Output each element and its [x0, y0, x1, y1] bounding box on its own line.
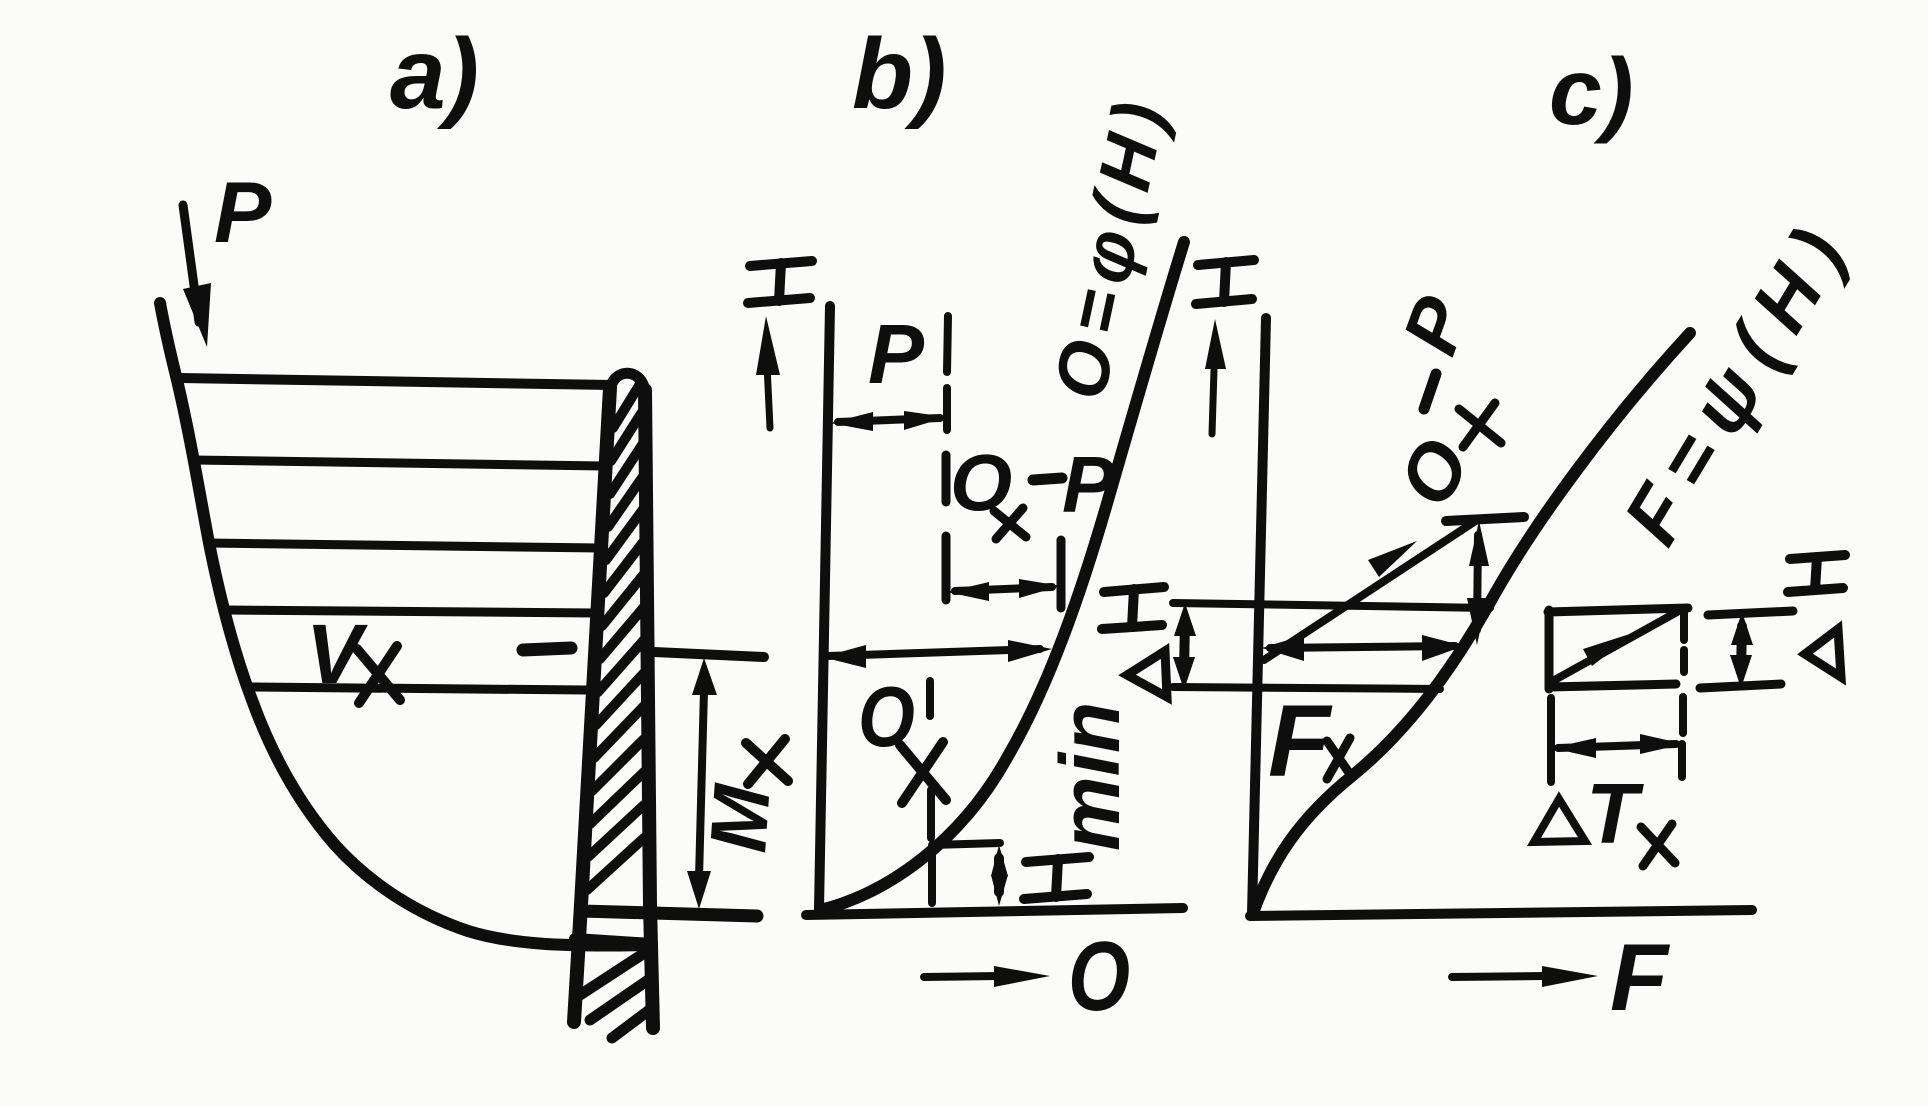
label delta-Tx	[1534, 767, 1675, 866]
label F (part c axis)	[1610, 925, 1671, 1031]
water line 4	[226, 610, 594, 613]
Ox-P label ticks	[946, 455, 1061, 608]
Mx top tick	[654, 652, 764, 657]
delta-H label rotated H glyph (left)	[1102, 587, 1164, 629]
delta-Tx dimension line	[1552, 734, 1684, 758]
vertical double arrow (part c)	[1467, 521, 1489, 645]
Hmin double arrow	[991, 845, 1008, 906]
P dimension line (part b)	[830, 411, 947, 431]
minus sign	[523, 648, 571, 650]
vertical axis (part c)	[1252, 318, 1266, 914]
column right edge	[645, 390, 653, 1028]
svg-text:P: P	[868, 307, 925, 401]
svg-text:P: P	[214, 165, 272, 261]
delta-H ticks (right)	[1700, 611, 1793, 688]
label F=psi(H) rotated	[1606, 200, 1870, 558]
label Fx	[1268, 684, 1352, 798]
delta-Tx left tick	[1547, 698, 1555, 782]
water line 1	[180, 378, 612, 385]
column hatching	[587, 384, 644, 890]
label Ox-P (part b)	[950, 438, 1116, 539]
label P (part a)	[214, 165, 272, 261]
tank bottom curve crossing column	[575, 939, 652, 944]
label Ox (part b)	[858, 669, 946, 803]
H axis label (rotated H glyph, part c)	[1196, 260, 1254, 304]
label P (part b)	[868, 307, 925, 401]
vertical axis (part b)	[819, 306, 830, 909]
strip lower line	[1173, 687, 1440, 689]
svg-text:P: P	[1385, 285, 1486, 365]
svg-text:P: P	[1062, 440, 1116, 529]
svg-text:M: M	[693, 780, 787, 855]
svg-text:F: F	[1610, 925, 1671, 1031]
horizontal double arrow (part c strip)	[1262, 635, 1464, 661]
H axis up arrow (part c)	[1205, 319, 1226, 434]
label Hmin (rotated H glyph)	[1024, 857, 1089, 899]
delta-H label rotated H glyph (right)	[1788, 555, 1845, 592]
Mx bottom tick	[581, 911, 757, 916]
water line 2	[193, 460, 604, 466]
label a)	[390, 18, 479, 130]
top tick of vector	[1446, 517, 1524, 521]
water line 5	[248, 687, 586, 690]
label Ox-P (part c, rotated)	[1381, 285, 1501, 521]
curve F=psi(H)	[1253, 333, 1690, 913]
bottom axis (part b)	[806, 908, 1183, 915]
column left edge	[574, 388, 610, 1022]
Mx dimension line with arrowheads	[687, 658, 717, 909]
delta triangle (right, apex left)	[1805, 629, 1841, 677]
curve O=phi(H)	[820, 242, 1184, 910]
delta-H double arrow (right)	[1730, 612, 1753, 688]
rectangle (part c)	[1548, 608, 1688, 689]
delta-H double arrow (left)	[1173, 603, 1196, 690]
rectangle diagonal with arrowhead	[1551, 612, 1677, 682]
bottom axis (part c)	[1250, 910, 1752, 916]
column top cap	[610, 373, 645, 392]
label c)	[1549, 39, 1633, 145]
label O (part b axis)	[1068, 922, 1130, 1032]
svg-text:a): a)	[390, 18, 479, 130]
diagonal Ox-P vector	[1264, 520, 1477, 660]
label O=phi(H) rotated	[1037, 86, 1183, 406]
H axis up arrow (part b)	[756, 316, 780, 428]
main level line (part b) with arrows	[822, 640, 1052, 668]
force arrow P line	[183, 205, 211, 347]
label Mx (rotated)	[693, 739, 788, 855]
Ox-P dimension line	[947, 579, 1061, 601]
svg-text:b): b)	[852, 18, 946, 130]
bottom axis arrow (part b)	[924, 966, 1050, 987]
label b)	[852, 18, 946, 130]
svg-text:O=φ(H): O=φ(H)	[1037, 86, 1183, 406]
strip upper line	[1173, 603, 1490, 608]
foundation hatching	[580, 950, 652, 1038]
tank wall curve	[160, 303, 650, 946]
dashed line under Ox	[930, 681, 932, 903]
delta triangle (left, apex left)	[1127, 651, 1167, 697]
svg-text:c): c)	[1549, 39, 1633, 145]
label Vx	[306, 607, 400, 703]
water line 3	[208, 543, 600, 548]
svg-text:T: T	[1586, 767, 1644, 862]
bottom axis arrow (part c)	[1452, 966, 1598, 987]
Hmin level line	[932, 843, 1000, 845]
svg-text:min: min	[1043, 702, 1137, 851]
label min (rotated)	[1043, 702, 1137, 851]
rectangle right edge dashed	[1682, 610, 1684, 777]
svg-text:O: O	[1068, 922, 1130, 1032]
H axis label (rotated H glyph, part b)	[748, 261, 812, 303]
dashed line under P	[947, 316, 948, 430]
